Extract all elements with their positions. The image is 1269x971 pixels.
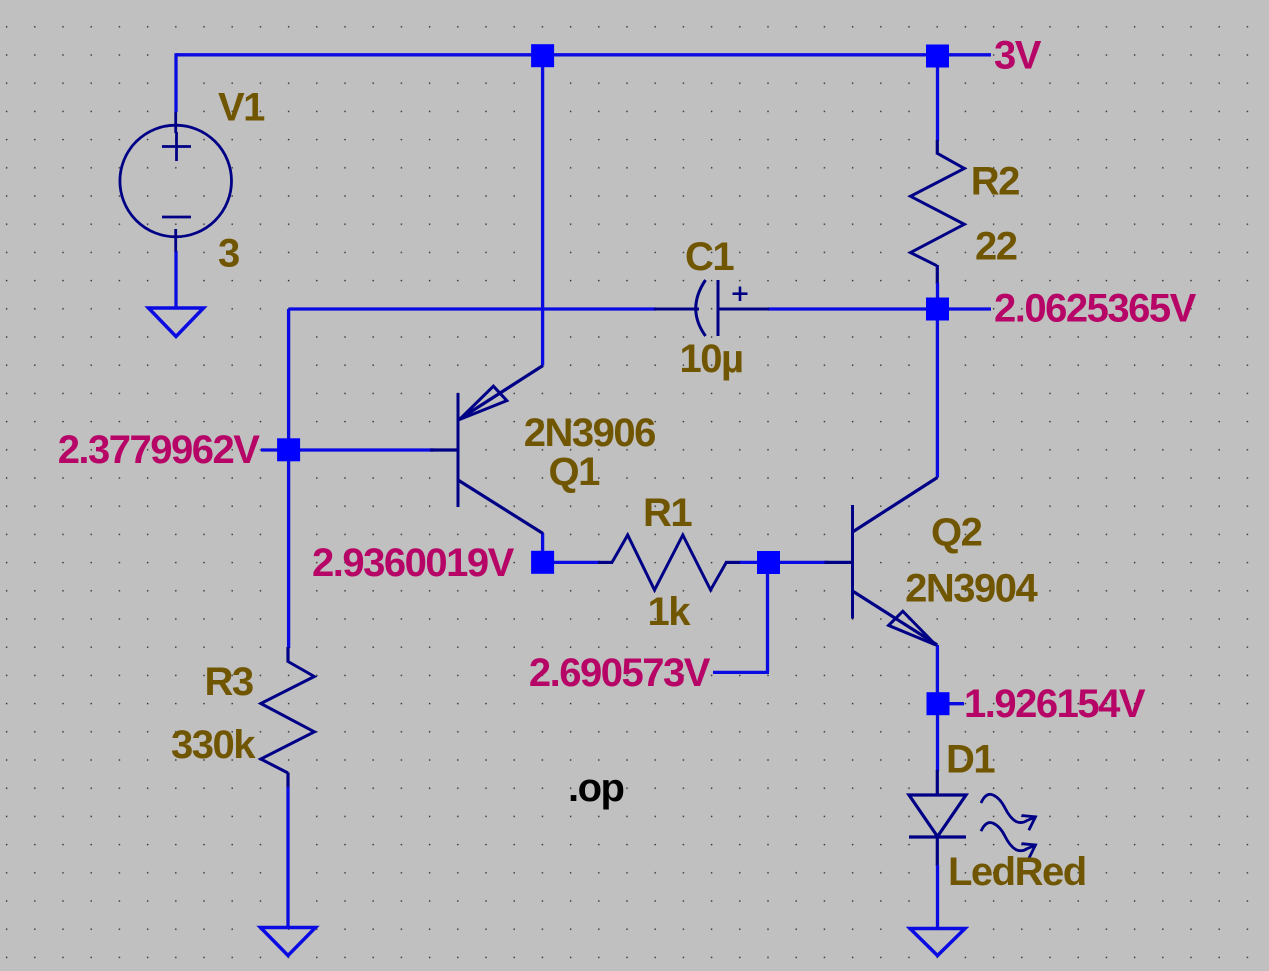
svg-text:2.0625365V: 2.0625365V [994, 287, 1197, 331]
svg-text:V1: V1 [218, 86, 265, 130]
wire R1 left pin [598, 561, 613, 564]
svg-text:22: 22 [975, 225, 1017, 269]
wire Q1 collector down [541, 533, 544, 562]
wire D1 top pin [936, 770, 939, 796]
junction node Q1 base [277, 438, 300, 461]
wire R1 right pin [725, 561, 741, 564]
wire C1 right to node [768, 307, 938, 310]
svg-text:LedRed: LedRed [948, 850, 1086, 894]
wire D1 top [936, 704, 939, 771]
svg-text:1.926154V: 1.926154V [964, 682, 1146, 726]
wire node stub left of base node [261, 448, 289, 451]
svg-text:D1: D1 [946, 738, 995, 782]
svg-text:2.9360019V: 2.9360019V [312, 541, 515, 585]
wire Q1 base pin [430, 448, 458, 451]
resistor R2 [911, 153, 965, 265]
resistor R3 [261, 662, 315, 774]
wire R3 top pin [286, 647, 289, 663]
wire C1 left rail [289, 307, 656, 310]
svg-text:2.690573V: 2.690573V [529, 651, 711, 695]
svg-text:R2: R2 [971, 160, 1019, 204]
svg-text:C1: C1 [685, 235, 734, 279]
wire R2 top [936, 55, 939, 141]
transistor Q1 (PNP 2N3906) [458, 366, 543, 534]
junction node 3V rail / R2 top [926, 45, 949, 68]
wire node stub down from R1 right node [766, 563, 769, 673]
junction node Q2 emitter / D1 [927, 692, 950, 715]
capacitor C1 [654, 280, 769, 336]
wire node stub right of R2 bottom node [938, 307, 992, 310]
transistor Q2 (NPN 2N3904) [853, 478, 938, 646]
junction node R2 bottom / C1 right [926, 298, 949, 321]
wire node stub right of emitter node [938, 702, 964, 705]
ground under R3 [261, 928, 316, 956]
wire top rail [176, 53, 991, 56]
svg-text:2N3906: 2N3906 [524, 411, 655, 455]
wire R1 left [543, 561, 600, 564]
ground under D1 [910, 929, 965, 956]
junction node Q1 collector / R1 left [531, 551, 554, 574]
wire R2 bottom pin [936, 265, 939, 284]
ground under V1 [149, 308, 204, 337]
wire Q1 emitter drop [541, 55, 544, 366]
svg-text:3V: 3V [994, 34, 1042, 78]
svg-text:Q1: Q1 [549, 450, 601, 494]
wire R2 bottom [936, 283, 939, 309]
junction node 3V rail / Q1 emitter [531, 44, 554, 67]
wire Q2 base pin [825, 561, 853, 564]
LED light arrow 1 [981, 794, 1036, 830]
wire Q2 emitter down [936, 645, 939, 704]
svg-text:2N3904: 2N3904 [905, 566, 1038, 610]
svg-text:2.3779962V: 2.3779962V [58, 428, 261, 472]
svg-text:.op: .op [568, 766, 624, 810]
wire Q1 base [289, 448, 434, 451]
junction node R1 right / Q2 base [757, 551, 780, 574]
voltage source V1 [120, 112, 232, 252]
wire Q2 collector up [936, 309, 939, 478]
wire R3 bottom pin [286, 773, 289, 789]
wire D1 bottom pin [936, 836, 939, 866]
svg-text:1k: 1k [648, 590, 692, 634]
wire D1 bottom to ground [936, 865, 939, 928]
svg-text:10µ: 10µ [680, 337, 743, 381]
resistor R1 [612, 535, 726, 590]
wire V1 bottom to ground [174, 251, 177, 309]
svg-text:R3: R3 [205, 660, 253, 704]
LED light arrow 2 [981, 823, 1036, 859]
wire Q2 base [768, 561, 829, 564]
wire R1 right [740, 561, 768, 564]
svg-text:330k: 330k [171, 723, 256, 767]
wire left vertical to R3 [287, 309, 290, 648]
svg-text:Q2: Q2 [931, 511, 982, 555]
diode D1 (LED) [909, 795, 966, 837]
svg-text:R1: R1 [643, 491, 692, 535]
svg-text:3: 3 [218, 231, 239, 275]
wire R3 bottom to ground [286, 787, 289, 927]
wire V1 top drop [174, 53, 177, 112]
wire node stub horizontal to 2.690573V label [713, 671, 769, 674]
wire R2 top pin [936, 140, 939, 155]
